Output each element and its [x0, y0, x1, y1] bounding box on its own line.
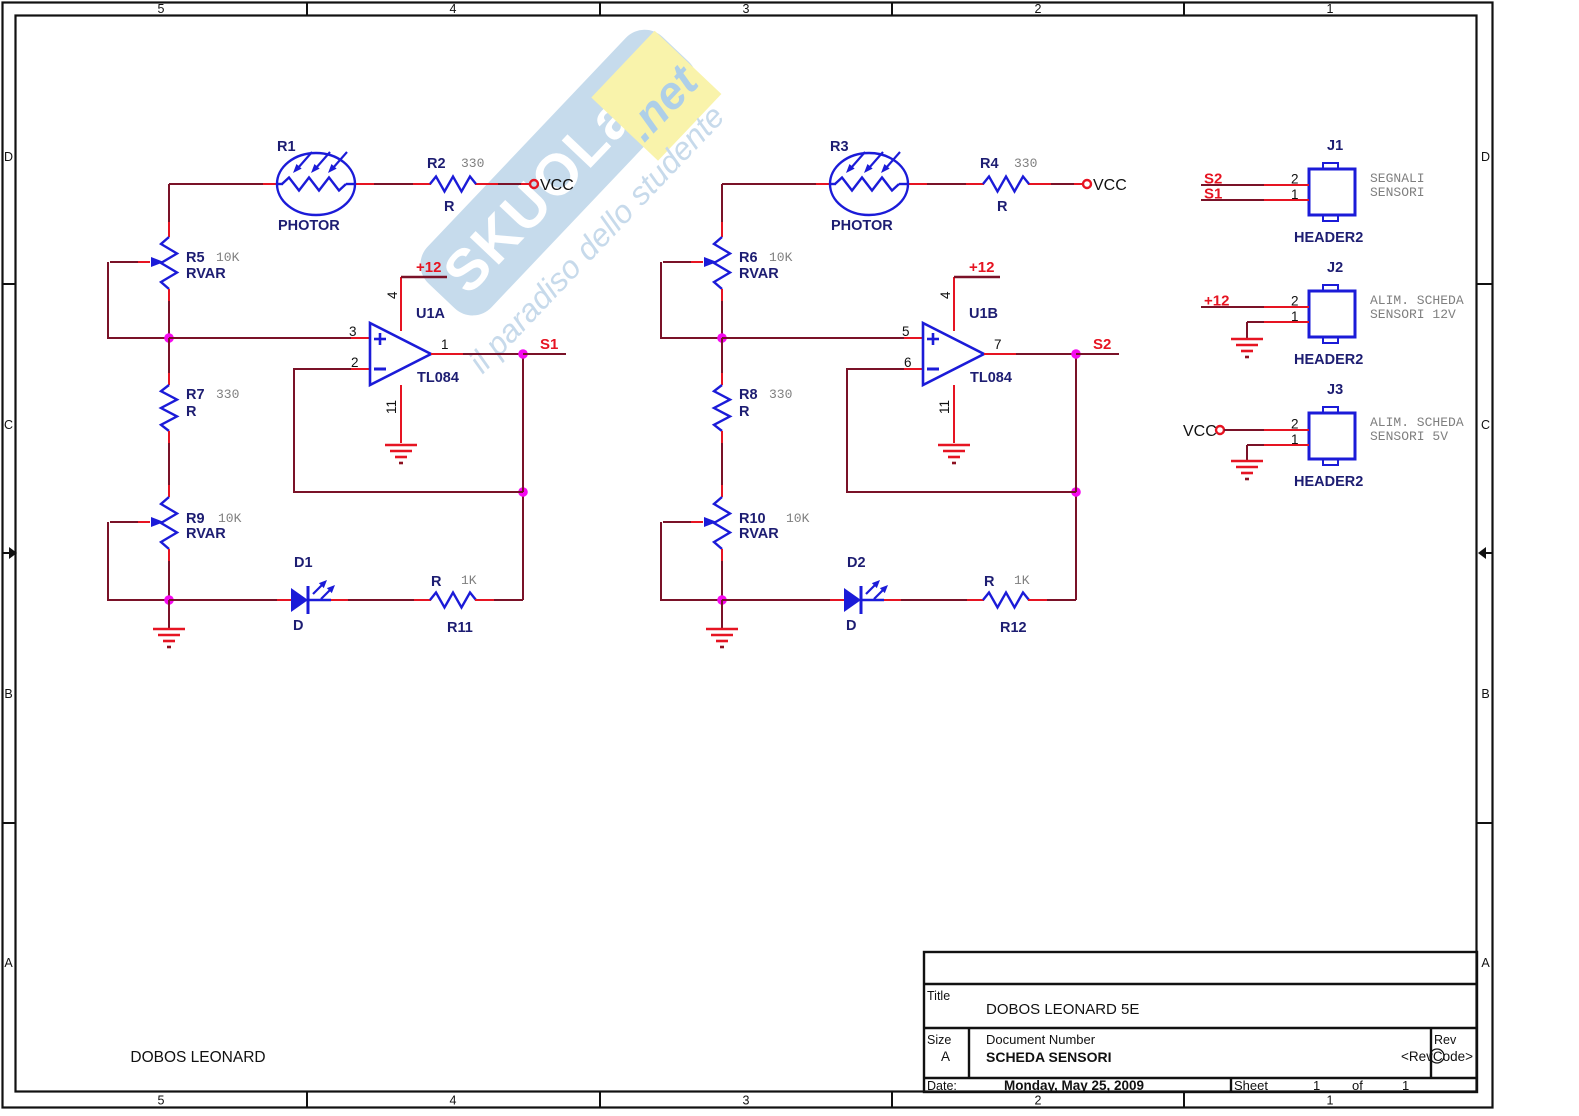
svg-text:1K: 1K	[461, 573, 477, 588]
label RVAR (R9)	[186, 526, 226, 542]
svg-text:R: R	[997, 199, 1008, 215]
value 10K (R9)	[218, 511, 242, 526]
svg-text:R3: R3	[830, 139, 849, 155]
svg-text:DOBOS LEONARD 5E: DOBOS LEONARD 5E	[986, 1001, 1139, 1018]
wire: R10 wiper loop	[661, 522, 718, 600]
node: R6/R8 junction to op-amp +input	[717, 333, 727, 343]
svg-text:VCC: VCC	[1183, 423, 1217, 440]
wire: R7 to R9	[168, 431, 170, 497]
svg-text:S1: S1	[1204, 186, 1222, 203]
svg-text:5: 5	[158, 2, 165, 16]
label TL084 (U1A part)	[417, 370, 459, 386]
svg-text:RVAR: RVAR	[186, 526, 226, 542]
wire: feedback loop to op-amp pin 2	[294, 369, 523, 492]
pin number 1 (J3)	[1291, 432, 1299, 447]
connector J1 (HEADER2)	[1309, 163, 1355, 221]
svg-text:R5: R5	[186, 250, 205, 266]
svg-text:Sheet: Sheet	[1234, 1078, 1268, 1093]
wire: R5 wiper loop	[108, 262, 165, 338]
svg-text:RVAR: RVAR	[186, 266, 226, 282]
value 1K (R11)	[461, 573, 477, 588]
value 330 (R4)	[1014, 156, 1037, 171]
svg-text:<RevCode>: <RevCode>	[1401, 1049, 1473, 1064]
svg-text:4: 4	[385, 291, 400, 299]
label R (R7 part name)	[186, 404, 197, 420]
svg-text:3: 3	[349, 324, 357, 339]
wire net S1 to J1 pin 1	[1201, 199, 1309, 201]
node: feedback junction	[518, 487, 528, 497]
label HEADER2 (J3)	[1294, 474, 1363, 490]
svg-text:10K: 10K	[216, 250, 240, 265]
node: R5/R7 junction to op-amp +input	[164, 333, 174, 343]
svg-text:R7: R7	[186, 387, 205, 403]
svg-text:+12: +12	[969, 259, 994, 276]
potentiometer R9 10K RVAR	[110, 497, 177, 549]
svg-text:ALIM. SCHEDA: ALIM. SCHEDA	[1370, 415, 1464, 430]
wire net S2-divider top: corner to photoresistor R3	[722, 184, 831, 237]
wire net +12 to J2 pin 2	[1201, 306, 1309, 308]
svg-text:R6: R6	[739, 250, 758, 266]
svg-text:R1: R1	[277, 139, 296, 155]
value 330 (R7)	[216, 387, 239, 402]
svg-text:2: 2	[351, 355, 359, 370]
svg-text:VCC: VCC	[1093, 177, 1127, 194]
wire: ground node to LED D1	[169, 599, 292, 601]
label R9	[186, 511, 205, 527]
node: feedback junction	[1071, 487, 1081, 497]
svg-text:R: R	[984, 574, 995, 590]
potentiometer R5 10K RVAR	[110, 237, 177, 289]
label R12	[1000, 620, 1027, 636]
label HEADER2 (J1)	[1294, 230, 1363, 246]
resistor R2 330	[430, 177, 476, 192]
wire: R5 bottom to node	[168, 289, 170, 338]
label PHOTOR (R1 value)	[278, 218, 340, 234]
label RVAR (R10)	[739, 526, 779, 542]
pin number 7 (output)	[994, 337, 1002, 352]
svg-text:R9: R9	[186, 511, 205, 527]
pin number 2 (J3)	[1291, 417, 1299, 432]
photoresistor R3 (PHOTOR)	[830, 152, 908, 215]
label HEADER2 (J2)	[1294, 352, 1363, 368]
svg-text:1: 1	[441, 337, 449, 352]
svg-text:SENSORI 12V: SENSORI 12V	[1370, 307, 1456, 322]
net label VCC	[540, 177, 574, 194]
wire: photoresistor R1 to resistor R2	[355, 183, 431, 185]
ground symbol	[706, 600, 738, 647]
svg-text:RVAR: RVAR	[739, 526, 779, 542]
pin number 2 (J2)	[1291, 294, 1299, 309]
pin number 6 (-input)	[904, 355, 912, 370]
svg-text:D: D	[293, 618, 303, 634]
svg-text:U1B: U1B	[969, 306, 998, 322]
value 10K (R6)	[769, 250, 793, 265]
ground symbol	[153, 600, 185, 647]
wire: resistor R4 to VCC terminal	[1028, 183, 1083, 185]
pin 4 (U1B V+)	[938, 277, 954, 331]
svg-text:S2: S2	[1093, 336, 1111, 353]
wire: R9 bottom to ground node	[168, 549, 170, 600]
svg-text:3: 3	[743, 2, 750, 16]
svg-text:SENSORI: SENSORI	[1370, 185, 1425, 200]
svg-text:Document Number: Document Number	[986, 1032, 1096, 1047]
pin number 2 (-input)	[351, 355, 359, 370]
label R10	[739, 511, 766, 527]
pin number 1 (J2)	[1291, 309, 1299, 324]
svg-text:11: 11	[937, 400, 952, 414]
annotation ALIM. SCHEDA SENSORI 5V (J3)	[1370, 415, 1464, 444]
net label +12	[1204, 293, 1229, 310]
pin number 3 (+input)	[349, 324, 357, 339]
svg-text:RVAR: RVAR	[739, 266, 779, 282]
label U1B	[969, 306, 998, 322]
label RVAR (R5)	[186, 266, 226, 282]
svg-text:7: 7	[994, 337, 1002, 352]
svg-text:R4: R4	[980, 156, 999, 172]
pin number 1 (J1)	[1291, 187, 1299, 202]
svg-text:R12: R12	[1000, 620, 1027, 636]
wire: S1 stub	[523, 353, 566, 355]
pin 11 (U1A V-)	[384, 385, 401, 443]
value 330 (R2)	[461, 156, 484, 171]
pin number 5 (+input)	[902, 324, 910, 339]
svg-text:C: C	[1481, 418, 1490, 432]
svg-text:U1A: U1A	[416, 306, 446, 322]
wire: R6 wiper loop	[661, 262, 718, 338]
wire: J3 pin 1 to ground	[1247, 445, 1309, 460]
label R3	[830, 139, 849, 155]
node: output junction S2	[1071, 349, 1081, 359]
label J2	[1327, 260, 1343, 276]
label R5	[186, 250, 205, 266]
svg-text:R: R	[739, 404, 750, 420]
svg-text:10K: 10K	[769, 250, 793, 265]
svg-text:Size: Size	[927, 1033, 951, 1047]
label R (R11 part name)	[431, 574, 442, 590]
svg-text:D1: D1	[294, 555, 313, 571]
wire: LED to resistor R11	[331, 599, 431, 601]
potentiometer R10 10K RVAR	[663, 497, 730, 549]
svg-text:R: R	[444, 199, 455, 215]
svg-text:Date:: Date:	[927, 1079, 957, 1093]
svg-text:Monday, May 25, 2009: Monday, May 25, 2009	[1004, 1078, 1144, 1093]
svg-text:4: 4	[450, 1094, 457, 1108]
label D (D1 part name)	[293, 618, 303, 634]
svg-text:330: 330	[1014, 156, 1037, 171]
svg-text:R8: R8	[739, 387, 758, 403]
ground symbol (J3)	[1231, 461, 1263, 479]
wire: op-amp output pin 7 to S2	[984, 354, 1076, 492]
wire: photoresistor R3 to resistor R4	[908, 183, 984, 185]
wire: node down to resistor R7	[168, 338, 170, 385]
svg-text:of: of	[1352, 1078, 1363, 1093]
net label S1	[540, 336, 558, 353]
net label S2	[1204, 171, 1222, 188]
wire: R8 to R10	[721, 431, 723, 497]
resistor R11 1K	[430, 593, 476, 608]
label U1A	[416, 306, 446, 322]
op-amp U1B (TL084)	[923, 323, 984, 385]
label J1	[1327, 138, 1343, 154]
label R7	[186, 387, 205, 403]
svg-text:+12: +12	[416, 259, 441, 276]
power symbol +12	[401, 259, 447, 277]
svg-text:DOBOS LEONARD: DOBOS LEONARD	[130, 1049, 265, 1066]
svg-text:10K: 10K	[786, 511, 810, 526]
connector J2 (HEADER2)	[1309, 285, 1355, 343]
VCC terminal	[530, 180, 538, 188]
wire: ground node to LED D2	[722, 599, 845, 601]
wire: LED to resistor R12	[884, 599, 984, 601]
label R (R12 part name)	[984, 574, 995, 590]
svg-text:R11: R11	[447, 620, 473, 636]
wire: R9 wiper loop	[108, 522, 165, 600]
wire net S2 to J1 pin 2	[1201, 184, 1309, 186]
wire: node to op-amp pin 3	[169, 337, 369, 339]
label R2	[427, 156, 446, 172]
wire: node down to resistor R8	[721, 338, 723, 385]
svg-text:J2: J2	[1327, 260, 1343, 276]
svg-text:HEADER2: HEADER2	[1294, 230, 1363, 246]
svg-text:D: D	[846, 618, 856, 634]
wire: feedback loop to op-amp pin 6	[847, 369, 1076, 492]
label RVAR (R6)	[739, 266, 779, 282]
label PHOTOR (R3 value)	[831, 218, 893, 234]
label D2	[847, 555, 866, 571]
sheet note DOBOS LEONARD	[130, 1049, 265, 1066]
net label S2	[1093, 336, 1111, 353]
label R6	[739, 250, 758, 266]
resistor R4 330	[983, 177, 1029, 192]
title block	[924, 952, 1477, 1093]
wire: R12 to output feedback corner	[1028, 492, 1076, 600]
svg-text:TL084: TL084	[970, 370, 1012, 386]
svg-text:2: 2	[1035, 1094, 1042, 1108]
net label VCC (J3)	[1183, 423, 1217, 440]
resistor R7 330	[161, 385, 177, 431]
label R11	[447, 620, 473, 636]
potentiometer R6 10K RVAR	[663, 237, 730, 289]
ground symbol (op-amp)	[938, 445, 970, 463]
wire: R10 bottom to ground node	[721, 549, 723, 600]
svg-text:Title: Title	[927, 989, 950, 1003]
label D (D2 part name)	[846, 618, 856, 634]
VCC terminal	[1083, 180, 1091, 188]
svg-text:1: 1	[1327, 1094, 1334, 1108]
svg-text:2: 2	[1035, 2, 1042, 16]
value 330 (R8)	[769, 387, 792, 402]
wire: resistor R2 to VCC terminal	[475, 183, 530, 185]
wire: op-amp output pin 1 to S1	[431, 354, 523, 492]
svg-text:R: R	[431, 574, 442, 590]
svg-text:D: D	[1481, 150, 1490, 164]
svg-text:A: A	[1481, 956, 1490, 970]
svg-text:5: 5	[902, 324, 910, 339]
wire: R11 to output feedback corner	[475, 492, 523, 600]
wire VCC to J3 pin 2	[1224, 429, 1309, 431]
svg-text:HEADER2: HEADER2	[1294, 474, 1363, 490]
net label S1	[1204, 186, 1222, 203]
pin number 1 (output)	[441, 337, 449, 352]
value 1K (R12)	[1014, 573, 1030, 588]
annotation ALIM. SCHEDA SENSORI 12V (J2)	[1370, 293, 1464, 322]
node: output junction S1	[518, 349, 528, 359]
svg-text:330: 330	[461, 156, 484, 171]
svg-text:TL084: TL084	[417, 370, 459, 386]
node: ground junction below R10	[717, 595, 727, 605]
svg-text:VCC: VCC	[540, 177, 574, 194]
photoresistor R1 (PHOTOR)	[277, 152, 355, 215]
VCC terminal (J3)	[1216, 426, 1224, 434]
pin number 2 (J1)	[1291, 172, 1299, 187]
svg-text:D: D	[4, 150, 13, 164]
label R (R2 part name)	[444, 199, 455, 215]
label R (R8 part name)	[739, 404, 750, 420]
svg-text:5: 5	[158, 1094, 165, 1108]
svg-text:A: A	[4, 956, 13, 970]
label R1	[277, 139, 296, 155]
label J3	[1327, 382, 1343, 398]
svg-text:1: 1	[1313, 1078, 1320, 1093]
svg-text:PHOTOR: PHOTOR	[831, 218, 893, 234]
svg-text:SCHEDA SENSORI: SCHEDA SENSORI	[986, 1049, 1112, 1065]
net label VCC	[1093, 177, 1127, 194]
svg-text:B: B	[1481, 687, 1489, 701]
op-amp U1A (TL084)	[370, 323, 431, 385]
pin 11 (U1B V-)	[937, 385, 954, 443]
svg-text:C: C	[4, 418, 13, 432]
wire net S1-divider top: corner to photoresistor R1	[169, 184, 278, 237]
svg-text:4: 4	[938, 291, 953, 299]
svg-text:1: 1	[1402, 1078, 1409, 1093]
svg-text:+12: +12	[1204, 293, 1229, 310]
svg-text:1: 1	[1327, 2, 1334, 16]
node: ground junction below R9	[164, 595, 174, 605]
svg-text:A: A	[941, 1049, 950, 1064]
svg-text:6: 6	[904, 355, 912, 370]
svg-text:1K: 1K	[1014, 573, 1030, 588]
svg-text:R10: R10	[739, 511, 766, 527]
wire: J2 pin 1 to ground	[1247, 322, 1309, 338]
wire: R6 bottom to node	[721, 289, 723, 338]
svg-text:R: R	[186, 404, 197, 420]
connector J3 (HEADER2)	[1309, 407, 1355, 465]
svg-text:B: B	[4, 687, 12, 701]
svg-text:SEGNALI: SEGNALI	[1370, 171, 1425, 186]
svg-text:D2: D2	[847, 555, 866, 571]
svg-text:10K: 10K	[218, 511, 242, 526]
LED D1	[291, 580, 335, 614]
svg-text:330: 330	[216, 387, 239, 402]
value 10K (R10)	[786, 511, 810, 526]
label R4	[980, 156, 999, 172]
svg-text:SENSORI 5V: SENSORI 5V	[1370, 429, 1448, 444]
svg-text:J3: J3	[1327, 382, 1343, 398]
svg-text:PHOTOR: PHOTOR	[278, 218, 340, 234]
annotation SEGNALI SENSORI (J1)	[1370, 171, 1425, 200]
label D1	[294, 555, 313, 571]
label R (R4 part name)	[997, 199, 1008, 215]
svg-text:4: 4	[450, 2, 457, 16]
svg-text:HEADER2: HEADER2	[1294, 352, 1363, 368]
svg-text:3: 3	[743, 1094, 750, 1108]
resistor R12 1K	[983, 593, 1029, 608]
value 10K (R5)	[216, 250, 240, 265]
svg-text:Rev: Rev	[1434, 1033, 1457, 1047]
ground symbol (J2)	[1231, 339, 1263, 357]
wire: node to op-amp pin 5	[722, 337, 922, 339]
svg-text:ALIM. SCHEDA: ALIM. SCHEDA	[1370, 293, 1464, 308]
wire: S2 stub	[1076, 353, 1119, 355]
resistor R8 330	[714, 385, 730, 431]
LED D2	[844, 580, 888, 614]
ground symbol (op-amp)	[385, 445, 417, 463]
power symbol +12	[954, 259, 1000, 277]
pin 4 (U1A V+)	[385, 277, 401, 331]
svg-text:11: 11	[384, 400, 399, 414]
label TL084 (U1B part)	[970, 370, 1012, 386]
label R8	[739, 387, 758, 403]
svg-text:J1: J1	[1327, 138, 1343, 154]
svg-text:S1: S1	[540, 336, 558, 353]
svg-text:330: 330	[769, 387, 792, 402]
svg-text:R2: R2	[427, 156, 446, 172]
